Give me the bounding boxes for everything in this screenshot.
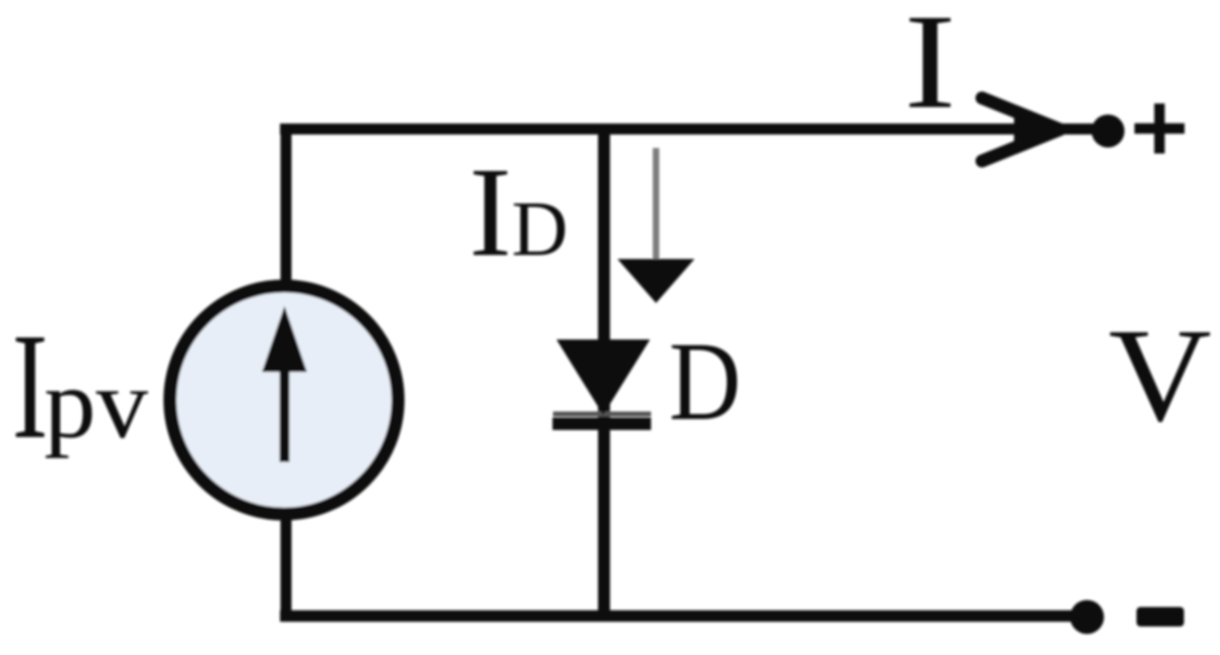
current ID arrow shaft	[653, 148, 660, 262]
current I arrow barb upper	[982, 98, 1060, 130]
wire diode branch	[598, 124, 610, 617]
wire bottom rail	[280, 610, 1073, 622]
svg-text:I: I	[904, 0, 956, 137]
svg-text:V: V	[1109, 301, 1212, 449]
current I arrow fill	[1014, 112, 1067, 147]
plus sign	[1135, 104, 1185, 154]
wire left branch upper	[281, 124, 292, 291]
diode D triangle	[557, 340, 651, 416]
diode D cathode bar	[553, 418, 652, 431]
current source arrow shaft	[280, 368, 290, 462]
svg-text:I: I	[12, 302, 48, 470]
minus sign	[1137, 607, 1185, 627]
node dot positive terminal	[1092, 115, 1125, 148]
current source Ipv circle	[170, 286, 398, 514]
current I arrow barb lower	[982, 130, 1060, 162]
wire top rail	[280, 124, 1093, 135]
diode D cathode tick	[553, 412, 651, 417]
current source arrow head	[262, 306, 307, 372]
current ID arrow head	[618, 259, 695, 303]
svg-text:D: D	[669, 320, 741, 444]
node dot negative terminal	[1070, 600, 1104, 634]
svg-text:pv: pv	[44, 348, 148, 459]
svg-text:ID: ID	[469, 141, 568, 283]
wire left branch lower	[281, 510, 292, 622]
